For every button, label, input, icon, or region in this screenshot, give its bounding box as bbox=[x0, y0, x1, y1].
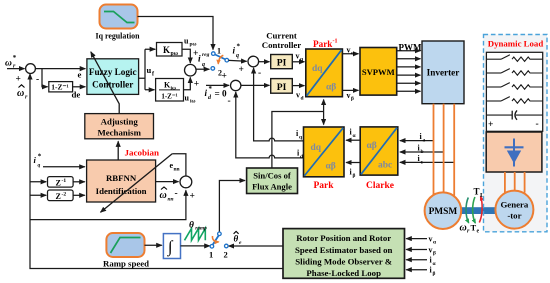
RBFNN output to error sum bbox=[156, 181, 179, 183]
wire i_alpha Clarke to Park bbox=[346, 128, 360, 141]
svg-text:dq: dq bbox=[312, 64, 323, 74]
Current Controller label bbox=[262, 31, 302, 50]
w_r hat feedback label bbox=[17, 85, 28, 101]
svg-text:= 0: = 0 bbox=[215, 89, 228, 99]
switch S2 bbox=[209, 232, 228, 260]
Jacobian arrow RBFNN to adjusting mechanism bbox=[118, 141, 159, 160]
svg-text:pω: pω bbox=[171, 51, 178, 57]
svg-text:Adjusting: Adjusting bbox=[101, 117, 139, 127]
RBFNN identification block bbox=[87, 160, 156, 202]
Inverter block bbox=[422, 41, 464, 104]
svg-text:αβ: αβ bbox=[326, 162, 336, 172]
svg-text:Inverter: Inverter bbox=[427, 67, 460, 77]
generator lead 1 bbox=[504, 172, 506, 193]
wire v_d to Park inverse bbox=[292, 86, 304, 102]
svg-text:-: - bbox=[228, 97, 231, 107]
PI controller d axis bbox=[271, 79, 293, 94]
svg-text:-1: -1 bbox=[62, 178, 67, 184]
Ramp speed block bbox=[103, 233, 149, 269]
svg-text:1: 1 bbox=[217, 47, 221, 56]
svg-text:v: v bbox=[296, 52, 300, 61]
svg-text:pω: pω bbox=[190, 42, 197, 48]
svg-text:*: * bbox=[13, 54, 17, 62]
torque green arrow 2 bbox=[473, 197, 476, 223]
svg-text:-2: -2 bbox=[62, 192, 67, 198]
load torque red arrow bbox=[479, 197, 482, 223]
svg-text:iω: iω bbox=[190, 99, 196, 105]
sin/cos output vertical and branch to Park and Park inverse bbox=[272, 112, 324, 168]
delay block Z^-2 bbox=[48, 190, 74, 201]
svg-text:q: q bbox=[38, 163, 41, 169]
phase line c inverter to PMSM bbox=[453, 104, 455, 197]
svg-text:v: v bbox=[429, 235, 433, 244]
i_q feedback wire from Park with hop bbox=[254, 68, 304, 141]
svg-text:d: d bbox=[300, 154, 303, 160]
switch S1 bbox=[211, 47, 229, 78]
svg-text:Fuzzy Logic: Fuzzy Logic bbox=[89, 67, 137, 77]
tuning arrow through FLC from Adjusting Mechanism bbox=[91, 52, 119, 114]
svg-text:Clarke: Clarke bbox=[366, 181, 394, 191]
wire e to Fuzzy Logic Controller bbox=[35, 69, 85, 80]
svg-text:q: q bbox=[299, 135, 303, 141]
label w_nn hat and signs bbox=[160, 187, 195, 203]
svg-text:e: e bbox=[477, 229, 480, 235]
Sin/Cos of Flux Angle block bbox=[247, 168, 298, 194]
svg-text:v: v bbox=[296, 91, 300, 100]
svg-text:+: + bbox=[488, 120, 493, 130]
svg-text:abc: abc bbox=[378, 161, 392, 171]
svg-text:*: * bbox=[237, 43, 241, 51]
taps from speed feedback into delay blocks bbox=[30, 181, 46, 183]
wire d sum to PI d bbox=[241, 84, 270, 86]
label i_q^reg bbox=[198, 52, 210, 68]
svg-text:ω: ω bbox=[160, 190, 167, 201]
arrow into Park top bbox=[323, 112, 325, 125]
svg-text:de: de bbox=[72, 90, 81, 100]
svg-text:*: * bbox=[38, 153, 42, 161]
svg-text:u: u bbox=[185, 94, 190, 103]
svg-text:iω: iω bbox=[171, 86, 176, 92]
generator machine bbox=[495, 191, 533, 229]
wire u_iw into sum bbox=[184, 77, 200, 104]
svg-text:PMSM: PMSM bbox=[429, 207, 458, 217]
svg-text:-: - bbox=[36, 75, 39, 85]
svg-text:α: α bbox=[353, 133, 357, 139]
wire u_pw into sum bbox=[182, 37, 198, 64]
svg-text:Sliding Mode Observer &: Sliding Mode Observer & bbox=[295, 256, 392, 266]
SVPWM block bbox=[360, 48, 397, 96]
generator lead 3 bbox=[524, 172, 526, 193]
summing junction PI output bbox=[185, 64, 197, 76]
svg-text:Iq regulation: Iq regulation bbox=[96, 32, 140, 41]
error wire from sum top into RBFNN diagonal bbox=[172, 154, 186, 176]
svg-text:Speed Estimator based on: Speed Estimator based on bbox=[295, 245, 392, 255]
svg-text:reg: reg bbox=[202, 52, 210, 58]
svg-text:K: K bbox=[163, 45, 170, 55]
svg-text:Genera: Genera bbox=[500, 200, 528, 210]
svg-text:2: 2 bbox=[224, 250, 228, 260]
phase line b inverter to PMSM bbox=[443, 104, 445, 193]
phase line a inverter to PMSM bbox=[433, 104, 435, 195]
svg-text:v: v bbox=[347, 91, 351, 100]
svg-text:*: * bbox=[209, 85, 213, 93]
load row 2 switch and resistor bbox=[486, 69, 542, 76]
summing junction speed loop bbox=[26, 64, 36, 74]
svg-text:u: u bbox=[184, 37, 189, 46]
label e_nn bbox=[170, 161, 180, 173]
delay outputs into RBFNN bbox=[73, 181, 85, 183]
svg-text:Mechanism: Mechanism bbox=[97, 128, 141, 138]
svg-text:e: e bbox=[239, 240, 242, 246]
svg-text:q: q bbox=[202, 62, 205, 68]
svg-text:Controller: Controller bbox=[92, 80, 133, 90]
svg-text:1: 1 bbox=[209, 250, 213, 260]
svg-text:r: r bbox=[25, 95, 28, 101]
branch to e_nn sum bbox=[30, 190, 186, 219]
integral block Kiw/(1-Z^-1) bbox=[156, 79, 184, 102]
svg-text:β: β bbox=[353, 173, 356, 179]
Park inverse transform block dq to alpha-beta bbox=[306, 49, 343, 97]
label T_e bbox=[471, 223, 480, 235]
svg-text:v: v bbox=[347, 46, 351, 55]
svg-text:f: f bbox=[152, 72, 155, 78]
wire Iq regulation to switch S1 point 1 bbox=[138, 17, 214, 50]
estimator input v_alpha bbox=[406, 235, 437, 246]
shaft PMSM to generator bbox=[461, 207, 497, 214]
svg-text:L: L bbox=[480, 192, 485, 199]
rectifier diode box bbox=[486, 132, 542, 172]
wire v_alpha to SVPWM bbox=[342, 46, 358, 57]
svg-text:Z: Z bbox=[56, 192, 61, 201]
svg-text:+: + bbox=[222, 72, 227, 82]
svg-text:-: - bbox=[536, 120, 539, 130]
wire integrator to switch point 1 bbox=[181, 245, 210, 247]
capacitor row bbox=[486, 110, 542, 130]
svg-text:nn: nn bbox=[168, 197, 174, 203]
current sensor tap i_a bbox=[400, 132, 434, 144]
svg-text:Controller: Controller bbox=[262, 40, 302, 50]
load bank rectangle bbox=[486, 52, 542, 131]
label i_q* RBFNN input bbox=[34, 153, 42, 169]
PMSM machine bbox=[425, 192, 462, 229]
svg-text:Jacobian: Jacobian bbox=[125, 148, 160, 158]
label i_d* = 0 and wire bbox=[205, 72, 230, 102]
i_d feedback wire from Park with hop bbox=[236, 92, 304, 160]
svg-text:Phase-Locked Loop: Phase-Locked Loop bbox=[306, 268, 381, 278]
dynamic load dashed boundary bbox=[484, 35, 548, 232]
load row 3 switch and resistor bbox=[486, 83, 542, 90]
svg-text:d: d bbox=[208, 95, 212, 101]
speed reference input w_r* bbox=[5, 54, 25, 85]
svg-text:T: T bbox=[474, 187, 480, 197]
svg-text:SVPWM: SVPWM bbox=[362, 67, 395, 77]
svg-text:α: α bbox=[433, 240, 437, 246]
svg-text:Z: Z bbox=[56, 178, 61, 187]
summing junction e_nn bbox=[180, 176, 192, 188]
arrow into Park inverse bottom bbox=[323, 100, 325, 112]
branch to 1-Z^-1 bbox=[42, 69, 48, 87]
svg-text:Park: Park bbox=[313, 39, 333, 49]
svg-text:+: + bbox=[239, 65, 244, 75]
label T_L bbox=[474, 187, 486, 200]
svg-text:e: e bbox=[78, 70, 82, 80]
dynamic load background bbox=[484, 35, 548, 232]
six PWM gate arrows bbox=[397, 51, 421, 92]
svg-text:ω: ω bbox=[5, 59, 12, 69]
load row 4 switch and resistor bbox=[486, 97, 542, 104]
label i_q* bbox=[233, 43, 241, 60]
svg-text:αβ: αβ bbox=[326, 83, 336, 93]
svg-text:αβ: αβ bbox=[367, 141, 377, 151]
svg-text:a: a bbox=[423, 137, 426, 143]
svg-text:+: + bbox=[194, 80, 199, 90]
svg-text:dq: dq bbox=[311, 143, 322, 153]
summing junction q current bbox=[239, 56, 262, 78]
Park transform block dq to alpha-beta bbox=[304, 127, 345, 177]
generator lead 2 bbox=[514, 172, 516, 191]
summing junction d current bbox=[228, 80, 241, 106]
svg-text:b: b bbox=[421, 149, 424, 155]
svg-text:Flux Angle: Flux Angle bbox=[252, 182, 292, 192]
svg-text:α: α bbox=[433, 261, 437, 267]
label theta_e hat bbox=[234, 231, 243, 246]
adjusting mechanism block bbox=[85, 114, 154, 139]
delay block Z^-1 bbox=[48, 177, 74, 188]
speed rotation green arrow 1 bbox=[466, 198, 469, 223]
svg-text:1-Z⁻¹: 1-Z⁻¹ bbox=[51, 83, 68, 92]
svg-text:PI: PI bbox=[277, 57, 287, 68]
svg-text:PI: PI bbox=[277, 82, 287, 93]
svg-text:Rotor Position and Rotor: Rotor Position and Rotor bbox=[296, 233, 391, 243]
label theta_ramp bbox=[189, 221, 207, 232]
svg-text:Identification: Identification bbox=[96, 186, 147, 196]
svg-text:ω: ω bbox=[460, 223, 467, 234]
current sensor tap i_c bbox=[400, 154, 454, 166]
estimator theta output to switch point 2 bbox=[229, 245, 283, 247]
svg-text:q: q bbox=[236, 53, 239, 59]
svg-text:-: - bbox=[175, 189, 178, 199]
svg-text:d: d bbox=[301, 96, 304, 102]
svg-text:nn: nn bbox=[174, 167, 180, 173]
wire q sum to PI q bbox=[259, 61, 270, 63]
load row 1 switch and resistor bbox=[486, 55, 542, 62]
wire switch to q current sum bbox=[229, 59, 247, 62]
svg-text:β: β bbox=[433, 271, 436, 277]
svg-text:i: i bbox=[198, 55, 201, 65]
estimator input i_beta bbox=[406, 266, 435, 278]
fuzzy logic controller U-FLC bbox=[87, 59, 139, 95]
svg-text:θ: θ bbox=[234, 234, 239, 244]
Iq regulation block bbox=[96, 5, 140, 41]
estimator input i_alpha bbox=[406, 256, 436, 268]
estimator input v_beta bbox=[406, 246, 436, 257]
block 1-Z^-1 bbox=[49, 82, 73, 92]
wire i_beta Clarke to Park bbox=[346, 163, 360, 180]
wire de to FLC bbox=[72, 87, 86, 100]
wire sum to switch point 2 bbox=[196, 68, 209, 70]
integrator block bbox=[163, 234, 180, 259]
wire v_q to Park inverse bbox=[292, 52, 304, 63]
wire theta to Sin/Cos block bbox=[219, 181, 245, 234]
gain block Kpw bbox=[157, 43, 183, 58]
label Park-1 red bbox=[313, 39, 338, 50]
svg-text:u: u bbox=[147, 65, 152, 75]
svg-text:+: + bbox=[190, 192, 195, 202]
svg-text:Ramp speed: Ramp speed bbox=[103, 260, 149, 269]
svg-text:θ: θ bbox=[189, 221, 194, 231]
svg-text:+: + bbox=[16, 75, 21, 85]
Clarke transform block bbox=[360, 127, 398, 175]
u_f wire and label bbox=[139, 49, 156, 90]
label w_r bbox=[460, 223, 471, 235]
svg-text:β: β bbox=[433, 251, 436, 257]
wire ramp to integrator bbox=[145, 244, 162, 246]
svg-text:i: i bbox=[34, 155, 37, 165]
svg-text:-1: -1 bbox=[333, 39, 338, 45]
current sensor tap i_b bbox=[400, 143, 444, 155]
rotor position and speed estimator block bbox=[283, 229, 405, 279]
svg-text:ω: ω bbox=[17, 88, 24, 99]
speed feedback bottom bus bbox=[30, 74, 283, 269]
svg-text:ramp: ramp bbox=[195, 226, 207, 232]
PI controller q axis bbox=[271, 55, 293, 69]
svg-text:-: - bbox=[258, 69, 261, 79]
svg-text:β: β bbox=[351, 96, 354, 102]
svg-text:Park: Park bbox=[314, 181, 335, 191]
wire i_q* to RBFNN bbox=[43, 166, 85, 168]
svg-text:Sin/Cos of: Sin/Cos of bbox=[253, 171, 291, 181]
wire v_beta to SVPWM bbox=[342, 90, 358, 101]
svg-text:-tor: -tor bbox=[507, 211, 521, 221]
svg-text:1-Z⁻¹: 1-Z⁻¹ bbox=[161, 93, 177, 101]
theta ramp sawtooth bbox=[185, 228, 206, 240]
svg-text:v: v bbox=[429, 246, 433, 255]
svg-text:RBFNN: RBFNN bbox=[106, 173, 137, 183]
svg-text:Dynamic Load: Dynamic Load bbox=[488, 39, 544, 49]
adaptation diagonal arrow through RBFNN bbox=[101, 154, 173, 213]
